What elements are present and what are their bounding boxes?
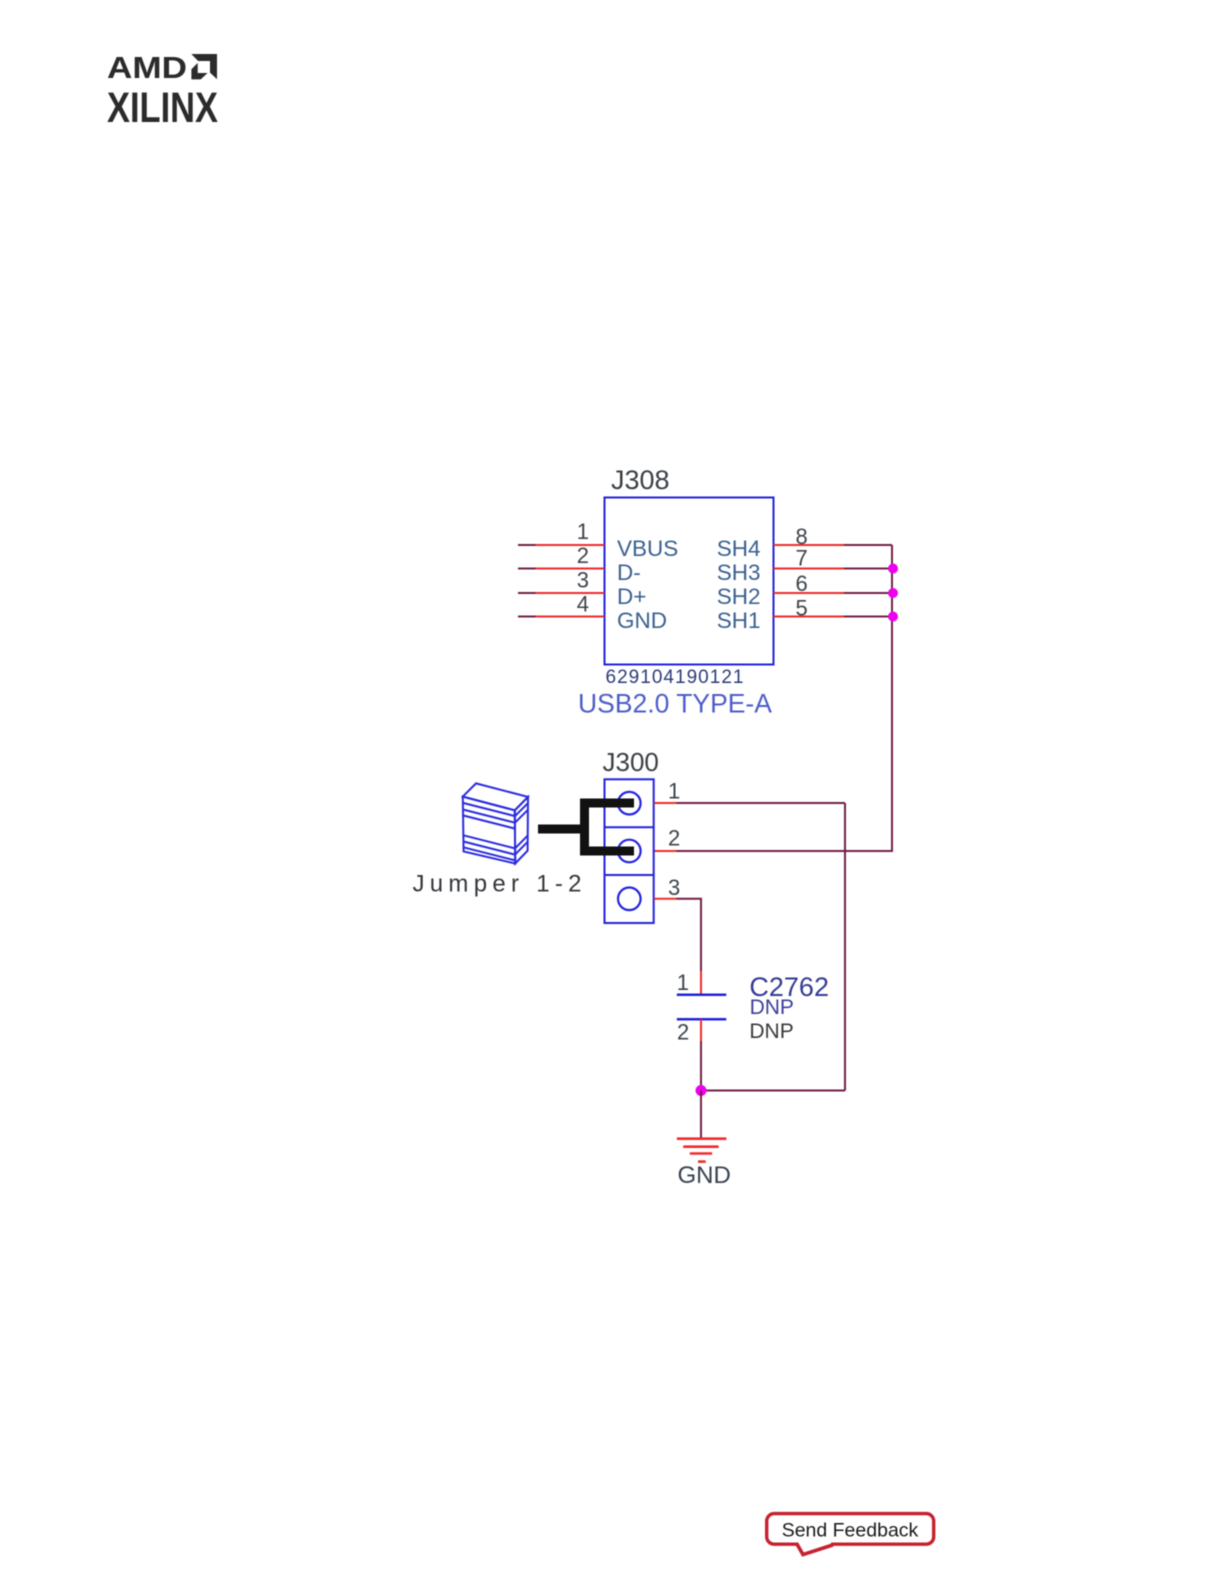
svg-text:1: 1 [577,519,589,544]
J300 pin 2 circle [618,840,641,863]
junction dot SH3 node [888,564,898,574]
svg-text:J300: J300 [603,747,659,777]
svg-text:3: 3 [668,875,680,900]
svg-text:2: 2 [668,826,680,851]
wire ground bus horizontal [701,1090,845,1092]
svg-text:D+: D+ [617,584,646,609]
wire J308 pin 8 (SH4) [774,544,893,546]
wire J308 pin 1 (left) [518,544,605,546]
jumper cap icon [463,783,528,863]
svg-text:AMD: AMD [107,50,187,85]
junction dot SH1 node [888,612,898,622]
wire J300 pin 1 vertical drop [844,803,846,1091]
svg-text:GND: GND [617,608,667,633]
wire shield bus vertical [654,545,892,851]
wire J308 pin 6 (SH2) [774,592,894,594]
svg-text:7: 7 [796,546,808,571]
wire J308 pin 2 (left) [518,568,605,570]
svg-text:GND: GND [678,1162,731,1189]
Send Feedback button [767,1514,934,1555]
wire J300 pin 2 red stub [654,850,677,852]
svg-text:1: 1 [677,970,689,995]
capacitor C2762 plate 2 [677,1018,727,1021]
svg-text:4: 4 [577,592,589,617]
svg-text:DNP: DNP [749,1020,793,1043]
J300 pin 1 circle [618,792,641,815]
wire J308 pin 7 (SH3) [774,568,894,570]
svg-text:SH1: SH1 [717,608,761,633]
svg-text:J308: J308 [611,465,670,495]
svg-text:Send Feedback: Send Feedback [782,1520,919,1542]
wire J308 pin 3 (left) [518,592,605,594]
svg-text:VBUS: VBUS [617,536,678,561]
wire J300 pin 1 [654,802,845,804]
ground symbol [677,1139,727,1162]
jumper shorting bracket 1-2 [538,799,634,856]
svg-text:SH4: SH4 [717,536,761,561]
AMD arrow symbol [191,54,217,79]
svg-text:3: 3 [577,568,589,593]
svg-text:XILINX: XILINX [107,84,218,132]
svg-text:2: 2 [577,543,589,568]
svg-text:DNP: DNP [750,996,794,1019]
svg-text:D-: D- [617,560,641,585]
header J300 body [605,779,654,923]
wire J308 pin 4 (left) [518,616,605,618]
svg-text:1: 1 [668,779,680,804]
svg-text:SH2: SH2 [717,584,761,609]
junction dot SH2 node [888,588,898,598]
J300 pin 3 circle [618,888,641,911]
svg-text:SH3: SH3 [717,560,761,585]
junction dot ground node [696,1085,707,1096]
wire to ground symbol [700,1091,702,1139]
svg-text:629104190121: 629104190121 [606,667,744,688]
capacitor C2762 plate 1 [677,993,727,996]
svg-text:2: 2 [677,1020,689,1045]
wire J300 pin 3 [654,899,701,995]
svg-text:USB2.0 TYPE-A: USB2.0 TYPE-A [578,689,772,719]
svg-text:Jumper 1-2: Jumper 1-2 [413,871,582,898]
connector J308 body [605,498,774,665]
capacitor C2762 pin 2 wire [700,1019,702,1090]
wire J308 pin 5 (SH1) [774,616,894,618]
